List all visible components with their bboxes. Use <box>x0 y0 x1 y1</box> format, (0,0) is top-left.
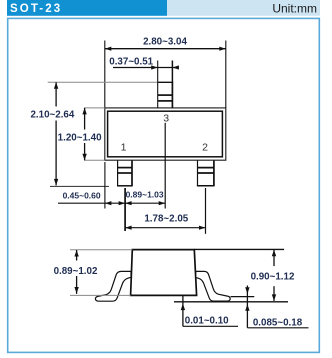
svg-text:2: 2 <box>202 142 208 154</box>
svg-text:0.89~1.02: 0.89~1.02 <box>54 266 98 277</box>
header unit label <box>167 0 320 16</box>
pin 1 tick marks <box>118 168 132 173</box>
svg-text:0.085~0.18: 0.085~0.18 <box>253 318 303 329</box>
right lead <box>196 271 230 301</box>
svg-text:SOT-23: SOT-23 <box>10 3 62 15</box>
seating plane line <box>174 301 288 303</box>
dim 2.80~3.04 <box>105 37 226 108</box>
pin 2 <box>197 161 215 187</box>
svg-text:3: 3 <box>163 112 169 124</box>
dim 0.89~1.03 <box>125 190 165 206</box>
pin 3 tab <box>157 82 173 108</box>
left lead <box>95 271 131 301</box>
pin 3 tick marks <box>158 95 173 101</box>
svg-text:Unit:mm: Unit:mm <box>272 2 317 16</box>
svg-text:0.01~0.10: 0.01~0.10 <box>185 315 229 326</box>
svg-text:1: 1 <box>121 142 127 154</box>
svg-text:0.89~1.03: 0.89~1.03 <box>126 190 164 200</box>
svg-text:2.80~3.04: 2.80~3.04 <box>143 37 187 48</box>
dim 0.01~0.10 <box>181 295 238 326</box>
svg-text:1.20~1.40: 1.20~1.40 <box>58 132 102 143</box>
svg-text:0.37~0.51: 0.37~0.51 <box>109 57 153 68</box>
side view body <box>131 250 197 296</box>
dim 1.78~2.05 <box>125 213 205 230</box>
dim 1.20~1.40 <box>58 108 105 160</box>
body outline (top view) <box>105 108 226 160</box>
pin 1 <box>117 161 133 187</box>
extension line body left <box>104 162 106 209</box>
package centerline <box>164 123 166 209</box>
pin 2 tick marks <box>198 168 214 173</box>
lead foot top extension right <box>231 296 255 298</box>
svg-text:2.10~2.64: 2.10~2.64 <box>30 110 74 121</box>
extension line pin2 center <box>205 188 207 234</box>
dim 0.45~0.60 <box>58 190 165 205</box>
dim 2.10~2.64 <box>30 82 157 186</box>
dim 0.89~1.02 <box>54 250 133 296</box>
dim 0.90~1.12 <box>194 249 295 301</box>
dim 0.085~0.18 <box>245 286 308 329</box>
svg-text:0.90~1.12: 0.90~1.12 <box>251 272 295 283</box>
extension line pin1 center <box>124 188 126 231</box>
svg-text:0.45~0.60: 0.45~0.60 <box>63 190 101 200</box>
header title bar <box>7 0 167 16</box>
svg-text:1.78~2.05: 1.78~2.05 <box>144 213 188 224</box>
dim 0.37~0.51 <box>109 57 179 83</box>
